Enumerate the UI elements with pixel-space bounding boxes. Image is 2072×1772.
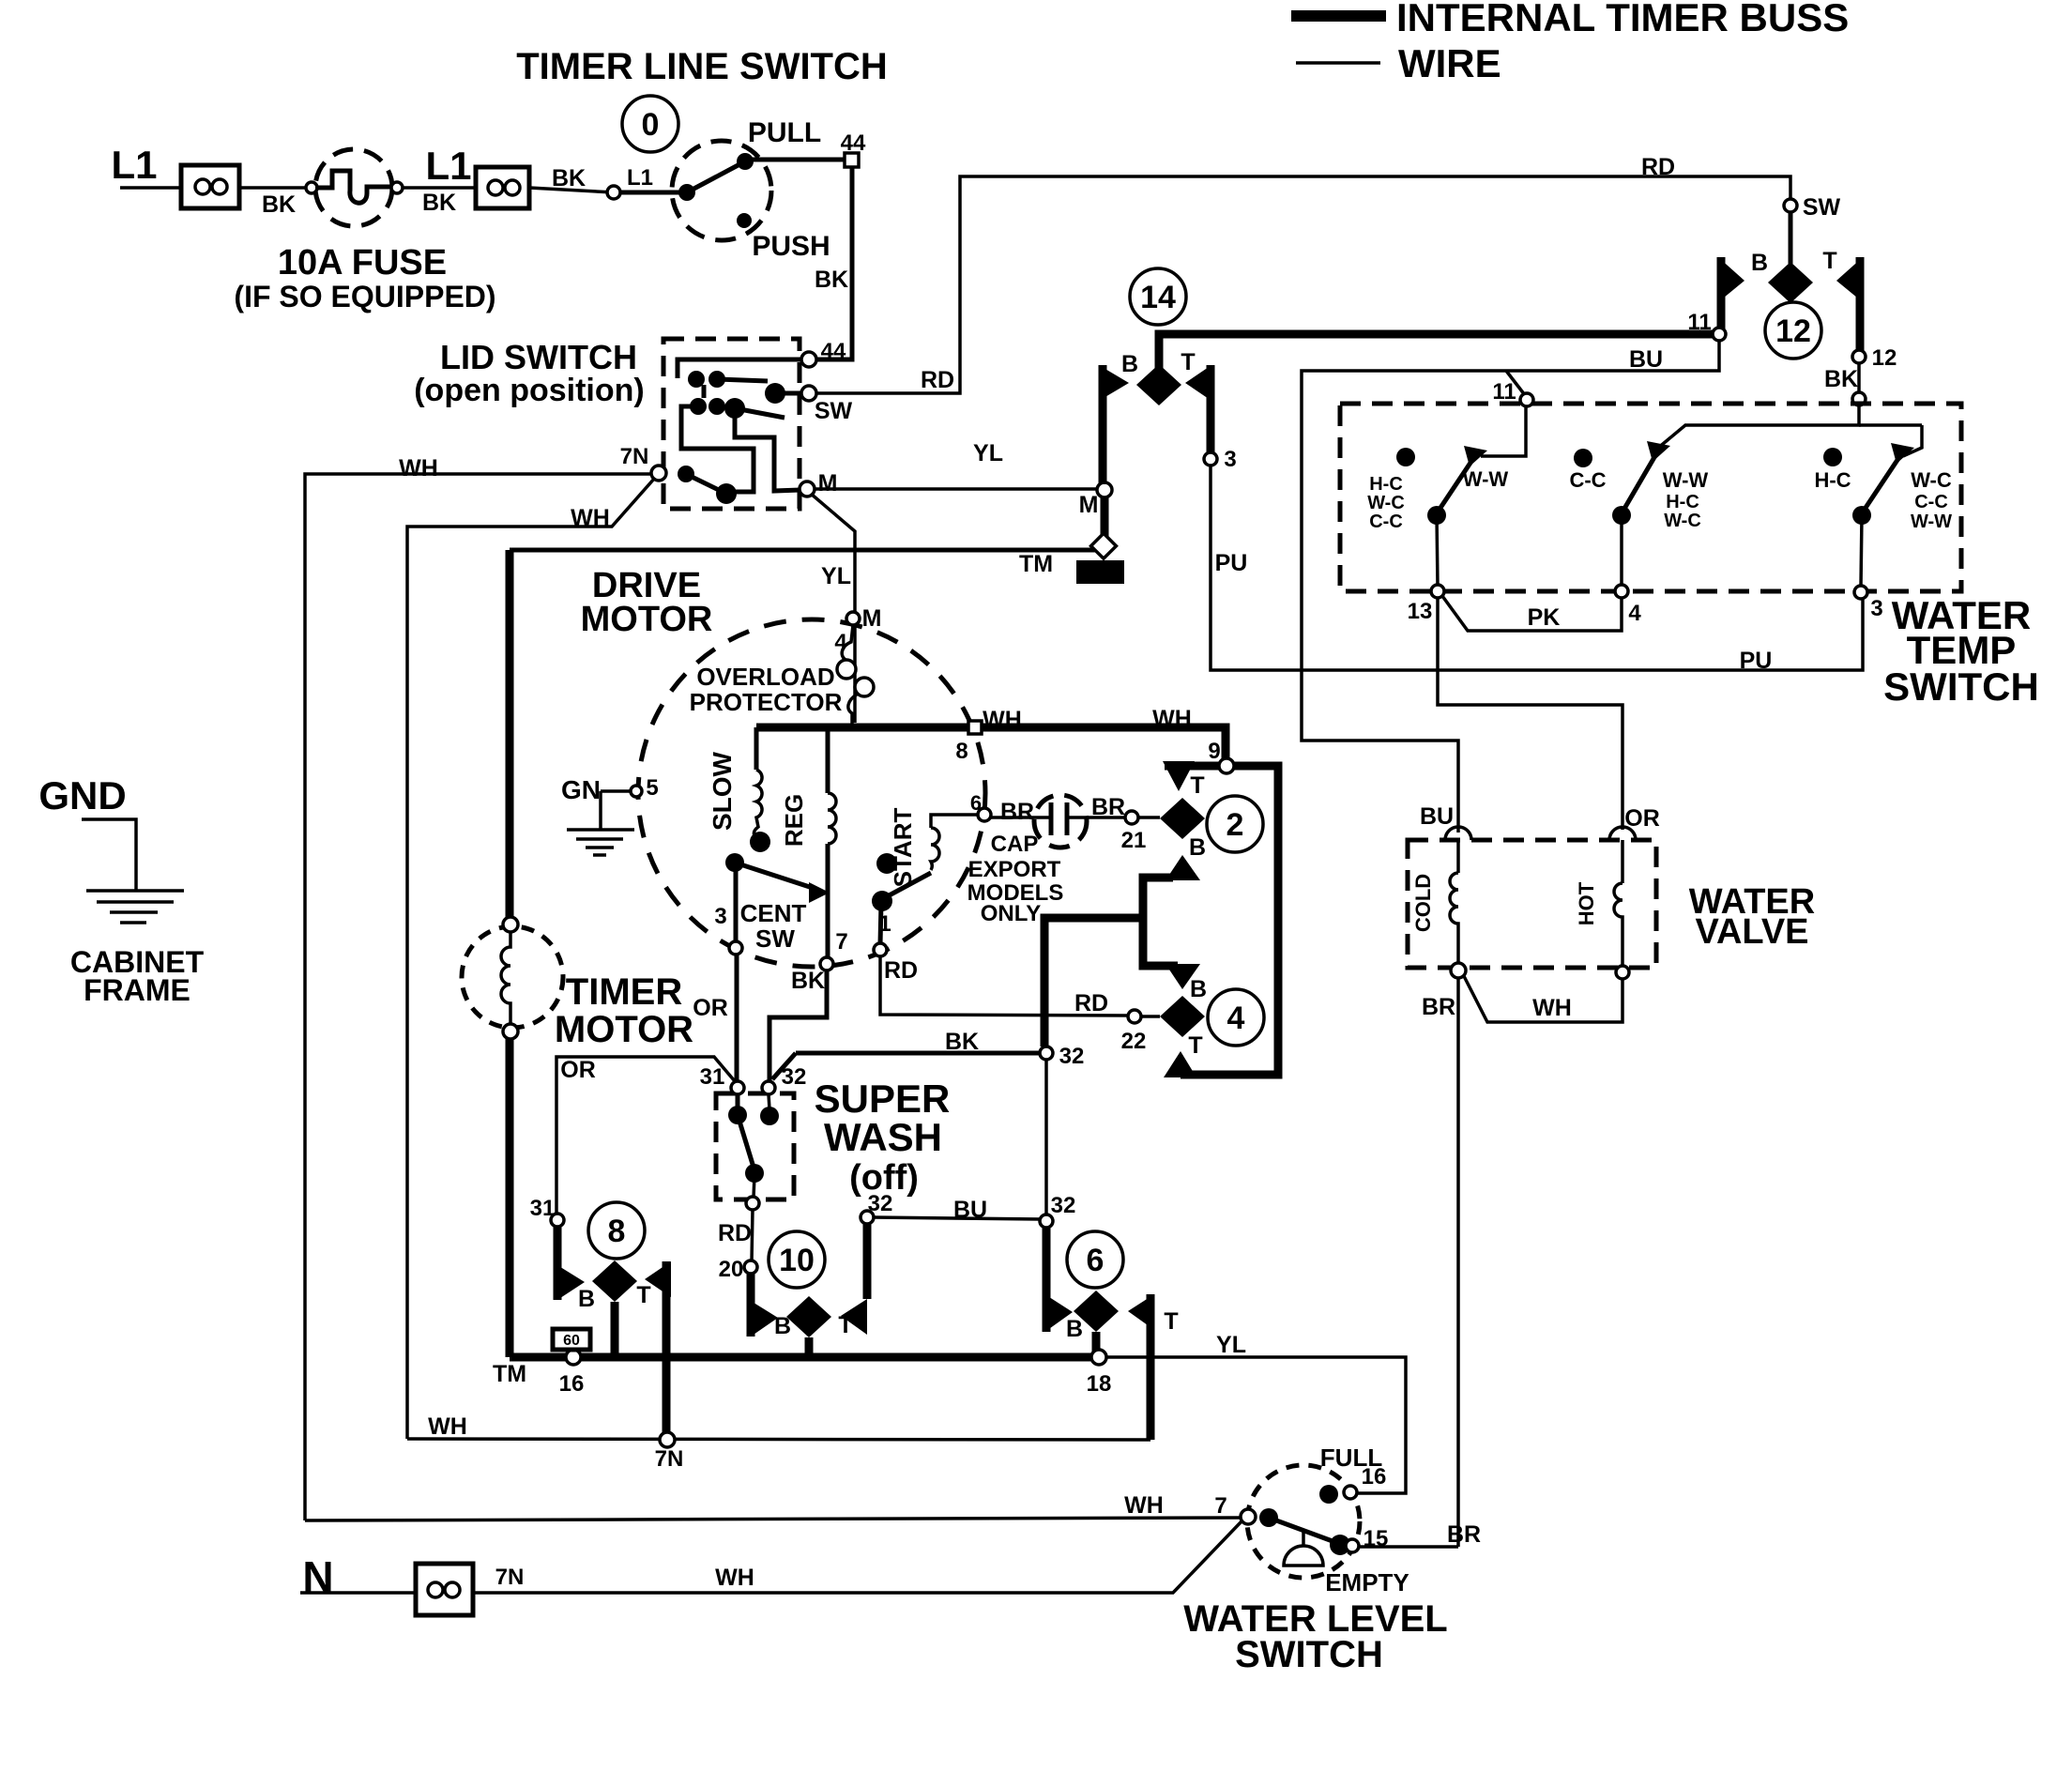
svg-text:TM: TM (493, 1361, 526, 1387)
terminal 12 (1852, 350, 1866, 363)
svg-text:RD: RD (1074, 990, 1108, 1016)
super wash arm contact (745, 1164, 764, 1183)
circled 2 (1207, 796, 1263, 852)
svg-text:1: 1 (878, 911, 891, 937)
start pivot (872, 891, 892, 911)
svg-text:7N: 7N (655, 1446, 684, 1472)
diamond 10 (786, 1296, 831, 1337)
bar T of 12 to 12 node (1856, 257, 1865, 351)
svg-text:CAP: CAP (991, 832, 1039, 857)
wire WH from 7N to left (305, 474, 652, 1520)
temp arm2 (1622, 452, 1657, 513)
wire M to timer M (815, 487, 1098, 491)
super wash 32 stub (769, 1094, 769, 1109)
svg-text:BK: BK (1824, 366, 1858, 392)
start switch arm (882, 873, 931, 899)
fuse F1 10A dashed circle (315, 149, 392, 226)
svg-text:W-C: W-C (1367, 493, 1405, 513)
lid switch stub (702, 385, 707, 398)
svg-text:WH: WH (1532, 995, 1572, 1021)
timer motor dashed circle (462, 926, 563, 1028)
wire WH 7N line (407, 1439, 1150, 1440)
bar+wire B of 14 to M (1099, 365, 1107, 484)
timer buss left edge lower (506, 1031, 514, 1357)
lid switch contact b3 (724, 398, 745, 419)
triangle B of 2 (1165, 855, 1200, 880)
timer buss 14 feed (1159, 334, 1713, 370)
svg-text:3: 3 (1224, 447, 1236, 472)
svg-text:ONLY: ONLY (981, 901, 1041, 926)
bar B of 6 from 32 (1043, 1228, 1051, 1332)
valve cold lower wire (1456, 929, 1460, 964)
svg-text:BR: BR (1000, 799, 1034, 825)
bar B of 10 from 20 (747, 1274, 755, 1337)
lid switch wire 44 row (678, 359, 802, 378)
svg-text:PK: PK (1528, 604, 1561, 631)
ground symbol cabinet frame (86, 889, 184, 893)
lid switch wire maze b (681, 406, 754, 492)
wire BR from valve down (1456, 978, 1460, 1547)
svg-text:31: 31 (530, 1196, 556, 1221)
svg-text:TIMER LINE SWITCH: TIMER LINE SWITCH (516, 46, 888, 87)
svg-text:WH: WH (571, 505, 610, 531)
timer buss bottom edge (510, 1353, 1099, 1362)
svg-text:C-C: C-C (1369, 512, 1403, 532)
overload protector squiggle (842, 625, 853, 660)
terminal 8 WH (968, 721, 982, 734)
svg-text:5: 5 (646, 775, 658, 801)
temp arm3 tip (1891, 443, 1914, 464)
temp feed rail horiz (1859, 423, 1922, 427)
timer buss branch to 32 (1044, 918, 1143, 1046)
terminal 44 of timer line switch (845, 153, 859, 167)
ground symbol motor (567, 828, 634, 832)
wire BK 44 down to lid switch (815, 166, 852, 359)
svg-text:12: 12 (1872, 345, 1897, 371)
diamond 14 (1136, 364, 1181, 405)
diamond 12 (1768, 262, 1813, 303)
svg-text:7: 7 (835, 929, 847, 955)
timer buss 10 to bus (805, 1337, 814, 1355)
temp arm1 to 13 (1437, 515, 1438, 586)
svg-text:WH: WH (399, 455, 438, 481)
marker 140 box (1076, 560, 1124, 584)
svg-text:6: 6 (1087, 1243, 1105, 1278)
triangle B of 14 (1099, 365, 1129, 401)
valve HOT coil (1614, 883, 1623, 925)
timer line switch PUSH contact (737, 213, 752, 228)
lid switch dashed box (663, 339, 800, 509)
wire M diagonal to YL line (811, 494, 855, 723)
connector P3 (neutral plug) (416, 1564, 473, 1615)
wire N segment (300, 1591, 416, 1595)
svg-text:W-C: W-C (1911, 468, 1952, 492)
svg-text:BK: BK (791, 968, 825, 994)
temp arm3 pivot (1852, 506, 1871, 525)
lid switch terminal 7N (651, 466, 666, 481)
svg-text:BU: BU (1420, 803, 1454, 830)
lid switch contact c2 (716, 483, 737, 504)
svg-text:SW: SW (815, 398, 853, 424)
timer buss 8 to bus (611, 1302, 619, 1355)
wire 32 down to BU (1044, 1060, 1048, 1214)
lid switch wire maze c (735, 413, 800, 491)
wire WH2 diagonal from 7N (407, 478, 655, 1439)
svg-text:SW: SW (755, 924, 795, 953)
wire WH valve link (1464, 976, 1623, 1022)
wire N to water level switch (473, 1521, 1242, 1593)
svg-text:BK: BK (945, 1029, 979, 1055)
svg-text:13: 13 (1408, 599, 1433, 624)
terminal M upper (1097, 482, 1112, 497)
junction fuse right (391, 182, 403, 193)
svg-text:(open position): (open position) (414, 373, 645, 408)
svg-text:22: 22 (1121, 1029, 1147, 1054)
wire PU from 3 down (1211, 466, 1863, 670)
svg-text:140: 140 (1087, 564, 1113, 582)
svg-text:L1: L1 (111, 143, 157, 187)
terminal 32 BU right (1040, 1214, 1053, 1228)
temp feed rail from BK (1657, 405, 1859, 449)
wire START top (931, 815, 978, 828)
svg-text:OVERLOAD: OVERLOAD (696, 663, 834, 691)
svg-text:11: 11 (1492, 379, 1516, 405)
wire slow branch (754, 727, 759, 770)
svg-text:BU: BU (953, 1197, 987, 1223)
svg-text:GND: GND (38, 773, 126, 817)
temp arm1 pivot (1427, 506, 1446, 525)
lid switch wire to SW terminal (783, 391, 802, 396)
svg-text:RD: RD (884, 957, 918, 984)
svg-text:YL: YL (1216, 1332, 1246, 1358)
temp arm2 to 4 (1620, 515, 1623, 586)
svg-text:LID SWITCH: LID SWITCH (440, 338, 637, 376)
wire BU (873, 1217, 1041, 1219)
terminal 18 on bus (1091, 1350, 1106, 1365)
svg-text:BK: BK (262, 191, 296, 218)
svg-text:INTERNAL TIMER BUSS: INTERNAL TIMER BUSS (1396, 0, 1849, 39)
svg-text:RD: RD (1641, 154, 1675, 180)
svg-text:9: 9 (1208, 739, 1220, 764)
wire OR elbow (556, 1057, 735, 1220)
wire 13 to valve OR (1438, 598, 1623, 830)
svg-text:M: M (862, 605, 882, 632)
wire YL from 18 (1106, 1357, 1406, 1493)
svg-text:BK: BK (422, 190, 456, 216)
svg-text:W-W: W-W (1911, 512, 1952, 532)
terminal 16 FULL (1344, 1486, 1357, 1499)
svg-text:CENT: CENT (740, 899, 807, 927)
diamond 6 (1074, 1291, 1119, 1332)
marker 60 box (553, 1329, 590, 1350)
wire BK 7 to super wash (769, 970, 827, 1081)
svg-text:PU: PU (1215, 550, 1248, 576)
terminal 5 (631, 786, 642, 797)
wire to 20 (752, 1210, 753, 1261)
terminal 31 super wash (731, 1081, 744, 1094)
cent sw pivot (725, 853, 744, 872)
timer buss from 2B down (1143, 878, 1178, 966)
svg-text:BR: BR (1091, 794, 1125, 820)
svg-text:SWITCH: SWITCH (1883, 664, 2039, 709)
svg-text:WH: WH (715, 1565, 754, 1591)
lid switch arm c (686, 474, 726, 494)
wire RD from lid SW to temp switch (816, 176, 1790, 393)
svg-text:SUPER: SUPER (815, 1077, 951, 1121)
svg-text:11: 11 (1687, 310, 1711, 335)
triangle T of 8 (645, 1261, 671, 1297)
svg-text:10: 10 (779, 1243, 815, 1278)
svg-text:44: 44 (821, 339, 846, 364)
valve hot bottom terminal (1616, 966, 1629, 979)
bar T of 6 down (1147, 1294, 1155, 1440)
wire REG branch (826, 727, 830, 793)
wire YL M node (846, 612, 860, 625)
timer line switch pivot (678, 184, 695, 201)
timer buss 6 to 18 (1092, 1332, 1101, 1352)
svg-text:PROTECTOR: PROTECTOR (690, 688, 843, 716)
svg-text:B: B (1066, 1316, 1083, 1342)
svg-text:32: 32 (1051, 1193, 1076, 1218)
svg-text:8: 8 (608, 1214, 626, 1249)
wire 22 to diamond 4 (1141, 1015, 1160, 1018)
svg-text:GN: GN (561, 775, 601, 804)
bar B of 8 from 31 (554, 1227, 562, 1300)
timer motor top terminal (503, 917, 518, 932)
svg-text:COLD: COLD (1411, 874, 1435, 932)
svg-text:3: 3 (714, 904, 726, 929)
wire connector to fuse (239, 186, 312, 190)
triangle T of 10 (841, 1299, 867, 1335)
terminal 21 (1125, 811, 1138, 824)
svg-text:T: T (1164, 1308, 1178, 1335)
wire M to TM diamond (1101, 497, 1109, 542)
svg-text:WH: WH (1124, 1492, 1164, 1519)
temp arm3 (1862, 454, 1901, 513)
terminal 11 temp (1520, 393, 1533, 406)
svg-text:12: 12 (1775, 313, 1811, 349)
svg-text:WH: WH (1152, 706, 1192, 732)
lid switch contact b1 (690, 398, 707, 415)
svg-text:BK: BK (815, 267, 848, 293)
triangle B of 10 (751, 1301, 778, 1337)
lid switch terminal SW (801, 386, 816, 401)
svg-text:SLOW: SLOW (708, 751, 737, 831)
svg-text:B: B (578, 1286, 595, 1312)
water level FULL contact (1319, 1485, 1338, 1504)
wire L1 to connector (120, 186, 181, 190)
temp arm3 to 3 (1861, 515, 1862, 587)
terminal SW right (1784, 199, 1797, 212)
svg-text:60: 60 (563, 1333, 580, 1349)
timer motor bottom terminal (503, 1024, 518, 1039)
terminal 22 (1128, 1010, 1141, 1023)
svg-text:T: T (838, 1312, 852, 1338)
svg-text:8: 8 (955, 739, 967, 764)
circled 8 (588, 1202, 645, 1259)
temp contact dot 3 (1823, 448, 1842, 466)
terminal 32 super wash (762, 1081, 775, 1094)
bar B of 12 to 11 (1717, 257, 1726, 328)
svg-text:BR: BR (1422, 994, 1455, 1020)
timer buss top edge (510, 548, 1104, 553)
svg-text:7: 7 (1214, 1493, 1226, 1519)
wire BU from 11 (1302, 341, 1719, 833)
REG coil (828, 793, 836, 844)
terminal 9 (1219, 758, 1234, 773)
svg-text:M: M (1079, 492, 1099, 518)
triangle B of 12 (1718, 257, 1744, 302)
triangle T of 4 (1164, 1051, 1196, 1077)
lid switch contact a1 (688, 371, 705, 388)
bar T of 10 from 32 (863, 1224, 872, 1299)
terminal 7 water level (1241, 1509, 1256, 1524)
START coil (931, 828, 939, 870)
diamond 8 (592, 1260, 637, 1302)
svg-text:H-C: H-C (1666, 492, 1699, 512)
svg-text:2: 2 (1226, 807, 1244, 843)
svg-text:EXPORT: EXPORT (968, 857, 1061, 882)
svg-text:10A FUSE: 10A FUSE (278, 243, 447, 283)
svg-text:7N: 7N (495, 1565, 525, 1590)
wire GN (601, 789, 631, 793)
triangle B of 6 (1046, 1295, 1073, 1331)
terminal 4 (1615, 585, 1628, 598)
temp arm1 (1437, 457, 1474, 513)
svg-text:TM: TM (1019, 551, 1053, 577)
svg-text:HOT: HOT (1575, 881, 1598, 925)
diamond 2 (1160, 798, 1205, 839)
triangle T of 6 (1128, 1294, 1154, 1330)
capacitor plates (1049, 802, 1054, 835)
terminal sw bottom (746, 1197, 759, 1210)
valve cold bottom terminal (1451, 963, 1466, 978)
legend: wire sample line (1296, 61, 1380, 65)
cent sw arm tip (809, 882, 830, 903)
wire arm to 20 (754, 1175, 754, 1198)
svg-text:B: B (1121, 351, 1138, 377)
svg-text:32: 32 (868, 1191, 893, 1216)
svg-text:T: T (1190, 772, 1204, 799)
junction BK at box edge (1852, 392, 1866, 405)
wire WH buss top (756, 724, 971, 732)
triangle T of 12 (1836, 257, 1863, 302)
circled 6 (1067, 1231, 1123, 1288)
junction fuse left (306, 182, 317, 193)
wire L1 terminal to pivot (620, 191, 687, 195)
terminal 20 (744, 1260, 757, 1274)
svg-text:W-W: W-W (1663, 468, 1709, 492)
drive motor dashed circle (638, 619, 985, 967)
capacitor dashed circle (1034, 795, 1087, 848)
lid switch terminal 44 (801, 352, 816, 367)
fuse F1 element (315, 171, 391, 203)
wire OR from cent 3 (735, 955, 739, 1081)
SLOW coil (754, 770, 762, 838)
svg-text:14: 14 (1140, 280, 1176, 315)
terminal 31 left (551, 1214, 564, 1227)
circled 4 (1208, 989, 1264, 1046)
timer line switch dashed circle (672, 141, 771, 240)
water level EMPTY contact (1330, 1535, 1350, 1555)
svg-text:VALVE: VALVE (1695, 912, 1808, 952)
svg-text:START: START (889, 808, 917, 888)
triangle B of 4 (1165, 964, 1200, 989)
svg-text:(IF SO EQUIPPED): (IF SO EQUIPPED) (234, 280, 495, 313)
wire REG to 7 (826, 844, 830, 957)
super wash arm (738, 1115, 754, 1170)
water level switch dashed circle (1247, 1465, 1360, 1578)
wire cap to 21 (1068, 816, 1125, 819)
wire BU branch diagonal to temp 11 (1506, 371, 1525, 395)
svg-text:W-W: W-W (1463, 467, 1509, 491)
super wash pivot (728, 1106, 747, 1124)
svg-text:18: 18 (1087, 1371, 1112, 1397)
svg-text:4: 4 (1227, 1001, 1245, 1036)
valve BU terminal bump (1445, 827, 1471, 840)
super wash dashed box (716, 1093, 794, 1199)
legend: internal timer buss sample line (1291, 10, 1386, 22)
lid switch terminal M (800, 481, 815, 496)
timer line switch arm contact (737, 153, 754, 170)
temp switch 1 feed (1481, 405, 1526, 456)
wire BR 15 (1359, 1545, 1458, 1549)
terminal TM on bus (566, 1350, 581, 1365)
timer buss left edge upper (506, 550, 514, 924)
svg-text:6: 6 (970, 791, 982, 815)
svg-text:WASH: WASH (824, 1115, 942, 1159)
timer buss from 4T (1181, 766, 1278, 1075)
svg-text:EMPTY: EMPTY (1325, 1568, 1409, 1596)
terminal 32 BU left (861, 1211, 874, 1224)
svg-text:H-C: H-C (1814, 468, 1851, 492)
terminal 11 (1713, 328, 1726, 341)
svg-text:32: 32 (782, 1064, 807, 1090)
temp arm2 pivot (1612, 506, 1631, 525)
water temp switch dashed box (1340, 404, 1961, 591)
super wash 31 stub (736, 1094, 740, 1111)
wire GN down (599, 791, 602, 830)
svg-text:PULL: PULL (748, 117, 821, 148)
bar T of 8 to 7N (663, 1261, 671, 1434)
triangle T of 14 (1185, 365, 1211, 401)
water valve dashed box (1408, 840, 1656, 968)
svg-text:C-C: C-C (1914, 492, 1948, 512)
lid switch contact b2 (708, 398, 725, 415)
svg-text:SW: SW (1803, 194, 1841, 221)
svg-text:BK: BK (552, 165, 586, 191)
svg-text:T: T (636, 1282, 650, 1308)
terminal 3 temp (1854, 586, 1867, 599)
timer cam 0 circled (622, 96, 678, 152)
svg-text:RD: RD (921, 367, 954, 393)
svg-text:PU: PU (1740, 648, 1773, 674)
water level dome (1284, 1529, 1323, 1566)
super wash 32 contact (760, 1107, 779, 1125)
wire 6 to cap (991, 816, 1050, 819)
terminal 1 (874, 943, 887, 956)
cent sw arm (735, 863, 818, 890)
svg-text:W-C: W-C (1664, 511, 1701, 531)
lid switch wire row2 to SW (717, 379, 768, 381)
svg-text:BR: BR (1447, 1521, 1481, 1548)
wire BK diag to super wash 32 (772, 1053, 796, 1079)
svg-text:B: B (1190, 976, 1207, 1002)
svg-text:BU: BU (1629, 346, 1663, 373)
lid switch contact c1 (678, 466, 694, 482)
svg-text:TIMER: TIMER (566, 971, 683, 1013)
svg-text:YL: YL (973, 440, 1003, 466)
